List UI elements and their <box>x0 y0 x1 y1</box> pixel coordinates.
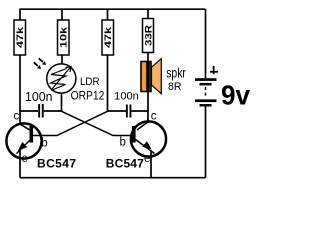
resistor R1 47k <box>14 20 26 55</box>
svg-text:e: e <box>22 153 28 165</box>
svg-text:b: b <box>41 138 47 150</box>
wire top rail <box>20 8 206 10</box>
wire R2 leads <box>61 9 63 21</box>
svg-text:LDR: LDR <box>80 76 100 88</box>
wire LDR bottom lead <box>61 93 63 112</box>
capacitor C2 100n <box>108 105 149 118</box>
wire R1 leads / Q1 collector column <box>19 9 21 21</box>
wire cross coupling C1 node to Q2 base <box>62 111 133 135</box>
transistor Q2 BC547 <box>131 121 166 177</box>
svg-text:e: e <box>144 153 150 165</box>
svg-text:47k: 47k <box>15 27 25 48</box>
battery B1 9v <box>195 9 217 178</box>
resistor R4 33R <box>143 19 154 53</box>
svg-text:c: c <box>14 111 20 123</box>
wire bottom rail <box>20 177 206 179</box>
LDR light arrows <box>34 58 46 69</box>
LDR ORP12 <box>47 64 76 93</box>
svg-text:b: b <box>120 137 126 149</box>
capacitor C1 100n <box>20 104 62 118</box>
speaker spkr 8R <box>141 59 161 94</box>
transistor Q1 BC547 <box>6 123 41 177</box>
svg-text:BC547: BC547 <box>37 156 76 170</box>
label + battery <box>210 66 218 74</box>
wire cross coupling R3 node to Q1 base <box>33 111 108 135</box>
wire R3 leads <box>107 9 109 21</box>
svg-text:100n: 100n <box>25 90 53 104</box>
resistor R2 10k <box>58 20 70 55</box>
resistor R3 47k <box>102 20 114 55</box>
svg-text:c: c <box>151 111 157 123</box>
wire speaker to Q2 collector <box>147 92 149 124</box>
svg-text:8R: 8R <box>168 81 182 93</box>
svg-text:100n: 100n <box>114 90 139 102</box>
svg-text:ORP12: ORP12 <box>71 89 105 103</box>
svg-text:BC547: BC547 <box>106 157 144 171</box>
svg-text:47k: 47k <box>103 27 113 48</box>
svg-text:9v: 9v <box>221 80 250 111</box>
svg-text:33R: 33R <box>143 24 153 46</box>
svg-text:spkr: spkr <box>166 65 186 80</box>
wire R4 leads <box>147 9 149 19</box>
svg-text:10k: 10k <box>59 27 69 48</box>
